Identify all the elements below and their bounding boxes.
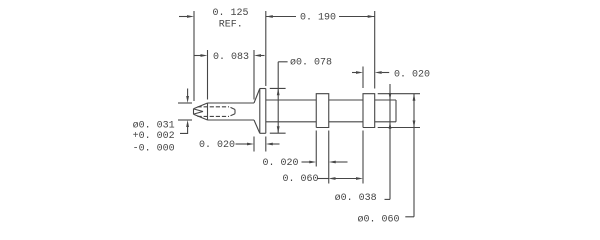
dim 0.083 left arrow tail [194,55,202,57]
dim 0.020 top right arrow tail [382,72,390,74]
dim 0.031 top arrow stem [187,89,189,97]
arrow 0.038 down [389,93,392,100]
chamfer base edge [207,103,209,120]
dim 0.060dia elbow [405,216,414,218]
arrow 0.031 up [186,120,189,127]
arrow 0.060 right [356,177,363,180]
tip body top line [208,102,255,104]
dim 0.020 band1 ext line left [315,131,317,167]
pin right end edge [395,100,397,122]
dim 0.190 line right segment [339,16,375,18]
pin tip facet line upper [194,109,204,112]
dim 0.020 band1 right arrow tail [335,161,347,163]
dim 0.038 dimension line [389,84,391,199]
flange band right edge [265,89,267,134]
dim 0.020 flange left arrow tail [236,143,248,145]
arrow 0.060 left [329,177,336,180]
arrow 0.020flange right [266,143,273,146]
pin tip lower chamfer [194,114,208,120]
dim 0.078 dimension line [277,62,279,133]
svg-text:ø0. 078: ø0. 078 [290,57,332,68]
arrow 0.078 down [277,126,280,133]
svg-text:0. 020: 0. 020 [263,158,299,169]
dim 0.060 left tail [318,178,329,180]
dim 0.038 elbow [385,198,391,200]
dim 0.031 bottom arrow stem and elbow [180,127,188,134]
arrow 0.083 right [254,54,261,57]
dim 0.125 ext line left [193,11,195,101]
arrow 0.190 right [368,15,375,18]
dim 0.078 ext line top [270,87,286,89]
svg-text:+0. 002: +0. 002 [133,131,175,142]
svg-text:0. 083: 0. 083 [213,52,249,63]
arrow 0.031 down [186,96,189,103]
dim 0.190 line left segment [266,16,296,18]
band 2 outline [363,94,375,128]
arrow 0.190 left [266,15,273,18]
dim 0.020 top ext line left [362,67,364,89]
shaft segment 1 top [266,99,316,101]
dim 0.060dia ext line bottom [378,127,420,129]
flange cone upper [254,89,260,104]
dim 0.125 left arrow tail [179,16,188,18]
arrow 0.083 left [201,54,208,57]
dim 0.083 ext line right [253,50,255,100]
svg-text:0. 020: 0. 020 [394,69,430,80]
hidden bore chamfer upper (dashed) [231,107,236,109]
svg-text:ø0. 031: ø0. 031 [133,120,175,131]
svg-text:REF.: REF. [219,19,243,30]
arrow 0.060dia up [413,94,416,101]
hidden bore top (dashed) [198,106,230,108]
dim 0.020 flange ext line right [265,137,267,152]
svg-text:0. 060: 0. 060 [283,174,319,185]
dim 0.020 band1 left arrow tail [302,161,311,163]
dim 0.031 ext line bottom [178,119,192,121]
arrow 0.060dia down [413,121,416,128]
pin tip facet line lower [194,112,204,115]
svg-text:0. 125: 0. 125 [213,8,249,19]
tip body bottom line [208,119,255,121]
dim 0.031 ext line top [178,102,192,104]
arrow 0.020top right [375,71,382,74]
dim 0.078 elbow [278,61,287,63]
dim 0.190 ext line right [374,11,376,89]
shaft segment 2 top [329,99,363,101]
flange cone lower [254,120,260,133]
dim 0.083 right arrow tail [261,55,265,57]
dim 0.020 band1 ext line right [328,131,330,184]
shaft segment 3 bottom [375,121,396,123]
svg-text:0. 190: 0. 190 [300,13,336,24]
svg-text:0. 020: 0. 020 [199,140,235,151]
pin tip point edge [193,109,195,115]
flange band left edge [259,89,261,134]
dim 0.125 ext line right / 0.190 left [265,11,267,86]
dim 0.020 flange ext line left [253,137,255,152]
svg-text:ø0. 060: ø0. 060 [358,214,400,225]
flange top edge [260,88,266,90]
arrow 0.020band1 right [329,161,336,164]
arrow 0.020flange left [247,143,254,146]
dim 0.020 top left arrow tail [352,72,357,74]
shaft segment 2 bottom [329,121,363,123]
arrow 0.020top left [356,71,363,74]
dim 0.083 ext line left [207,50,209,100]
band 1 outline [316,94,329,128]
svg-text:ø0. 038: ø0. 038 [335,193,377,204]
shaft segment 1 bottom [266,121,316,123]
dim 0.060dia dimension line [413,94,415,217]
arrow 0.125 left [187,15,194,18]
hidden bore bottom (dashed) [198,115,230,117]
dim 0.060dia ext line top [378,93,420,95]
shaft segment 3 top [375,99,396,101]
arrow 0.020band1 left [309,161,316,164]
arrow 0.038 up [389,122,392,129]
arrow 0.078 up [277,88,280,95]
flange bottom edge [260,132,266,134]
dim 0.078 ext line bottom [270,132,286,134]
svg-text:-0. 000: -0. 000 [133,143,175,154]
dim 0.060 dimension line [335,178,357,180]
dim 0.020 flange right arrow tail [272,143,279,145]
pin tip upper chamfer [194,103,208,109]
dim 0.060 ext line right [362,131,364,184]
